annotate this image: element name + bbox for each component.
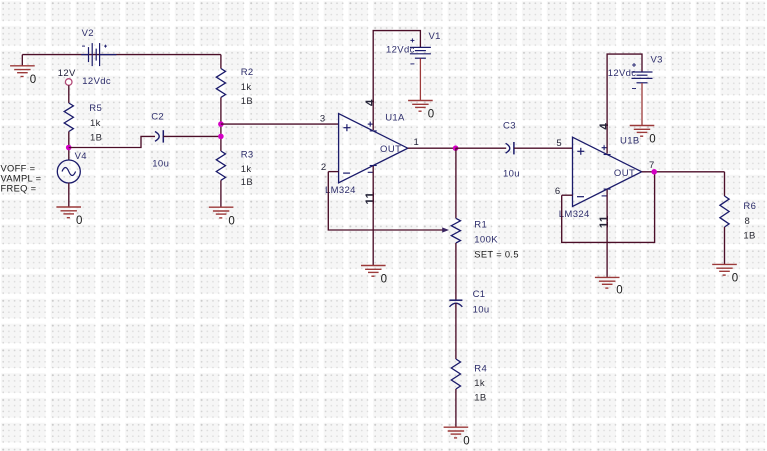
node 12V ring (65, 79, 72, 86)
svg-text:1B: 1B (241, 177, 253, 188)
svg-text:C2: C2 (151, 112, 164, 123)
junction E pin7 node (651, 169, 657, 175)
resistor R5 (64, 103, 73, 132)
svg-text:0: 0 (381, 274, 387, 286)
svg-text:VOFF =: VOFF = (1, 164, 36, 174)
capacitor C3 (506, 143, 510, 153)
ground G7 under U1B (595, 277, 620, 288)
wire R2 drop (220, 55, 222, 69)
wire C1 to R4 (455, 303, 457, 359)
pin 6 stub (562, 194, 573, 196)
svg-text:0: 0 (228, 215, 234, 227)
svg-text:C1: C1 (473, 289, 486, 300)
svg-text:4: 4 (365, 99, 377, 106)
wire out to junction D (408, 147, 456, 149)
svg-text:U1B: U1B (620, 136, 640, 147)
resistor R6 (720, 196, 729, 227)
svg-text:1k: 1k (90, 118, 101, 129)
ground G6 under R4 (444, 427, 469, 438)
wire V4 to ground (68, 183, 70, 207)
junction D output node (453, 145, 459, 151)
wire to pin 3 (221, 123, 339, 125)
svg-text:10u: 10u (473, 305, 490, 316)
junction A R5/V4/C2 (66, 145, 72, 151)
svg-text:LM324: LM324 (325, 185, 356, 196)
svg-text:11: 11 (599, 215, 611, 228)
svg-text:C3: C3 (503, 121, 516, 132)
svg-text:0: 0 (649, 134, 655, 146)
svg-text:10u: 10u (152, 158, 169, 169)
svg-text:1B: 1B (474, 393, 486, 404)
svg-text:1B: 1B (241, 96, 253, 107)
svg-text:0: 0 (616, 285, 622, 297)
svg-text:10u: 10u (503, 169, 520, 180)
ground G3 under R3 (209, 207, 234, 218)
svg-text:12Vdc: 12Vdc (386, 44, 415, 55)
svg-text:0: 0 (463, 435, 469, 447)
source V4 sine (57, 160, 80, 183)
wire R4 to ground (455, 389, 457, 427)
svg-text:V4: V4 (75, 151, 87, 162)
svg-text:1: 1 (414, 137, 420, 148)
svg-text:12V: 12V (58, 68, 76, 79)
svg-text:U1A: U1A (385, 113, 405, 124)
wire junction D to C3 (456, 147, 507, 149)
wire R2 to R3 (220, 97, 222, 151)
wiper arrow R1 (442, 227, 449, 232)
resistor R3 (216, 151, 225, 180)
wire C2 to R2R3 node (163, 135, 221, 137)
resistor R4 (451, 359, 460, 389)
junction B pin3 branch (218, 121, 224, 127)
svg-text:R3: R3 (241, 150, 254, 161)
svg-text:1B: 1B (743, 230, 755, 241)
capacitor C1 (449, 299, 462, 301)
svg-text:1k: 1k (241, 164, 252, 175)
ground G5 under V1 (408, 101, 433, 112)
svg-text:FREQ =: FREQ = (1, 184, 37, 194)
wire junction to C2 (69, 136, 155, 147)
resistor R2 (216, 69, 225, 98)
svg-text:4: 4 (599, 123, 611, 130)
wire junction D down to R1 (455, 148, 457, 218)
svg-text:V1: V1 (429, 31, 441, 42)
svg-text:2: 2 (321, 162, 327, 173)
wire R1 to C1 (455, 243, 457, 300)
svg-text:0: 0 (732, 273, 738, 285)
svg-text:12Vdc: 12Vdc (82, 76, 111, 87)
feedback wire pin2 to R1 wiper (328, 172, 443, 230)
ground G9 under R6 (712, 264, 737, 275)
svg-text:0: 0 (428, 109, 434, 121)
pin 4 wire U1A (373, 31, 420, 130)
svg-text:R4: R4 (474, 364, 487, 375)
svg-text:VAMPL =: VAMPL = (1, 174, 42, 184)
wire R3 to ground (220, 180, 222, 207)
junction C C2 branch (218, 134, 224, 140)
svg-text:3: 3 (320, 114, 326, 125)
wire R5 to junction (68, 132, 70, 161)
svg-text:5: 5 (556, 138, 562, 149)
svg-text:1k: 1k (474, 378, 485, 389)
ground G8 under V3 (630, 126, 655, 137)
svg-text:8: 8 (745, 216, 751, 227)
svg-text:LM324: LM324 (559, 209, 590, 220)
ground G1 top-left (21, 55, 23, 66)
svg-text:R5: R5 (89, 103, 102, 114)
battery V3 (632, 72, 653, 83)
wire R6 to ground (724, 227, 726, 264)
svg-text:V3: V3 (651, 55, 663, 66)
pin 11 wire U1B (606, 190, 608, 278)
wire 12V to R5 (68, 85, 70, 103)
wire pin 7 out (642, 171, 725, 173)
svg-text:SET = 0.5: SET = 0.5 (474, 250, 519, 260)
svg-text:R1: R1 (474, 220, 487, 231)
pin 2 stub (328, 171, 338, 173)
pin 4 wire U1B (607, 54, 642, 154)
battery V1 (410, 47, 431, 58)
wire V3 to ground (641, 83, 643, 126)
svg-text:1k: 1k (241, 82, 252, 93)
battery V2 (81, 43, 116, 66)
wire V1 to ground (419, 58, 421, 100)
svg-text:V2: V2 (82, 28, 94, 39)
potentiometer R1 (451, 218, 460, 243)
wire down to R6 (724, 172, 726, 196)
svg-text:1B: 1B (90, 132, 102, 143)
capacitor C2 (155, 132, 159, 142)
svg-text:11: 11 (365, 191, 377, 204)
svg-text:R6: R6 (743, 201, 756, 212)
pin 11 wire U1A (372, 166, 374, 266)
svg-text:0: 0 (30, 74, 36, 86)
wire top rail V2 to R2 (22, 54, 221, 56)
svg-text:0: 0 (76, 215, 82, 227)
op-amp U1A (339, 114, 408, 183)
svg-text:OUT: OUT (614, 168, 635, 179)
svg-text:12Vdc: 12Vdc (608, 68, 637, 79)
svg-text:6: 6 (555, 186, 561, 197)
ground G2 under V4 (56, 207, 81, 218)
svg-text:100K: 100K (474, 235, 498, 246)
ground G4 under U1A (361, 266, 386, 277)
feedback wire U1B (562, 172, 655, 243)
op-amp U1B (573, 137, 642, 206)
svg-text:R2: R2 (241, 67, 254, 78)
svg-text:OUT: OUT (380, 144, 401, 155)
wire C3 to pin 5 (514, 147, 573, 149)
